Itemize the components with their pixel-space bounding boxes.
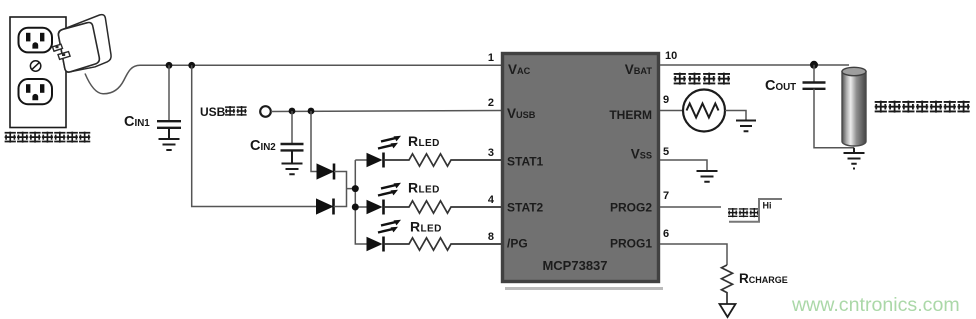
diode D2 (from VAC) xyxy=(317,199,334,215)
wall outlet lower receptacle xyxy=(19,79,53,104)
svg-text:4: 4 xyxy=(488,194,495,206)
LED DS1 (STAT1) xyxy=(367,136,402,168)
capacitor CIN2 xyxy=(281,144,304,150)
label COUT xyxy=(765,78,796,94)
svg-text:RLED: RLED xyxy=(410,219,442,235)
wire thermistor to ground xyxy=(725,111,746,121)
label RLED (bottom) xyxy=(410,219,442,235)
label RLED (middle) xyxy=(408,180,440,196)
svg-text:Hi: Hi xyxy=(763,201,772,211)
wire VAC top rail xyxy=(140,64,501,66)
ground (thermistor) xyxy=(736,121,756,132)
junction node diode output on bus xyxy=(352,185,359,192)
pin number 9 xyxy=(663,94,669,106)
ground (CIN1) xyxy=(159,128,180,150)
label 墙式稳压适配器 (wall regulated adapter) xyxy=(5,132,91,143)
ground (VSS) xyxy=(697,171,718,182)
wire VBAT rail (pin 10) xyxy=(660,64,849,66)
pin label STAT2 xyxy=(507,201,544,215)
wire adapter cord xyxy=(85,65,140,94)
resistor RLED top xyxy=(384,154,502,166)
svg-text:CIN1: CIN1 xyxy=(124,114,150,130)
pin number 7 xyxy=(663,190,669,202)
wall adapter prong lower xyxy=(58,52,70,60)
label 单节锂离子电池 (single-cell li-ion battery) xyxy=(875,101,970,113)
wire CIN2 branch xyxy=(291,111,293,143)
pin label VBAT xyxy=(625,62,653,77)
wire VSS to ground (pin 5) xyxy=(660,160,707,171)
ground (CIN2) xyxy=(282,150,303,174)
wire CIN1 branch xyxy=(168,65,170,120)
diode D1 (from VUSB) xyxy=(317,164,334,180)
label 低电平 (low level) xyxy=(728,208,759,217)
resistor RCHARGE xyxy=(722,265,733,304)
wall outlet center screw xyxy=(30,61,40,71)
wall adapter prong upper xyxy=(53,44,63,51)
svg-text:/PG: /PG xyxy=(507,237,528,251)
pin number 3 xyxy=(488,147,494,159)
wire PROG1 to RCHARGE (pin 6) xyxy=(660,244,727,265)
label RLED (top) xyxy=(408,133,440,149)
svg-text:CIN2: CIN2 xyxy=(250,138,276,154)
svg-text:1: 1 xyxy=(488,52,494,64)
wire VUSB branch down to diode D1 xyxy=(311,111,317,172)
svg-text:PROG2: PROG2 xyxy=(610,201,652,215)
LED DS2 (STAT2) xyxy=(367,183,402,215)
arrow terminal below RCHARGE xyxy=(720,304,736,317)
thermistor RT1 xyxy=(683,90,725,132)
resistor RLED middle xyxy=(384,201,502,213)
svg-text:STAT1: STAT1 xyxy=(507,155,544,169)
pin label THERM xyxy=(609,108,652,122)
pin label VUSB (pin 2 inside) xyxy=(507,106,536,121)
svg-text:3: 3 xyxy=(488,147,494,159)
wire VAC branch down to diode D2 xyxy=(192,65,317,206)
pin number 10 xyxy=(665,50,677,62)
battery BT1 single-cell li-ion xyxy=(842,67,866,146)
wall outlet upper receptacle xyxy=(19,28,53,53)
wire VUSB rail xyxy=(271,111,501,112)
wall outlet plate xyxy=(10,17,66,128)
pin number 5 xyxy=(663,146,669,158)
pin label STAT1 xyxy=(507,155,544,169)
USB connector circle xyxy=(260,106,271,117)
pin number 1 xyxy=(488,52,494,64)
pin number 8 xyxy=(488,231,494,243)
pin label PROG2 xyxy=(610,201,652,215)
svg-text:STAT2: STAT2 xyxy=(507,201,544,215)
junction node CIN2 tap xyxy=(289,108,296,115)
svg-text:www.cntronics.com: www.cntronics.com xyxy=(791,294,960,316)
watermark www.cntronics.com xyxy=(791,294,960,316)
svg-text:MCP73837: MCP73837 xyxy=(542,258,607,273)
IC U1 MCP73837 body xyxy=(503,54,664,291)
wall adapter plug body xyxy=(58,15,111,72)
pin label /PG xyxy=(507,237,528,251)
wire diode OR-output bar xyxy=(334,172,356,207)
svg-text:9: 9 xyxy=(663,94,669,106)
ground (battery) xyxy=(844,148,865,169)
svg-text:THERM: THERM xyxy=(609,108,652,122)
svg-text:PROG1: PROG1 xyxy=(610,237,652,251)
label 热敏电阻 (thermistor) xyxy=(674,73,730,85)
svg-text:RLED: RLED xyxy=(408,133,440,149)
logic level step symbol on PROG2 xyxy=(729,199,782,222)
svg-text:COUT: COUT xyxy=(765,78,796,94)
junction node VAC branch to diode D2 xyxy=(188,62,195,69)
LED DS3 (/PG) xyxy=(367,220,402,252)
pin label VSS xyxy=(631,147,652,162)
svg-text:2: 2 xyxy=(488,97,494,109)
wire COUT to battery negative xyxy=(814,89,854,148)
label USB端口 (USB port) xyxy=(200,105,247,119)
pin label PROG1 xyxy=(610,237,652,251)
svg-text:8: 8 xyxy=(488,231,494,243)
svg-text:USB: USB xyxy=(200,105,226,119)
pin label VAC (pin 1 inside) xyxy=(508,62,531,77)
label CIN2 xyxy=(250,138,276,154)
svg-text:7: 7 xyxy=(663,190,669,202)
wire THERM to thermistor (pin 9) xyxy=(660,110,683,112)
pin number 4 xyxy=(488,194,495,206)
capacitor COUT xyxy=(803,65,826,89)
junction node COUT tap xyxy=(810,61,818,69)
svg-text:RCHARGE: RCHARGE xyxy=(739,271,788,286)
wire PROG2 (pin 7) xyxy=(660,206,721,208)
junction node CIN1 tap xyxy=(166,62,173,69)
label RCHARGE xyxy=(739,271,788,286)
wire LED anode bus xyxy=(355,160,366,244)
junction node middle LED tap xyxy=(352,204,359,211)
svg-text:10: 10 xyxy=(665,50,677,62)
resistor RLED bottom xyxy=(384,238,502,250)
pin number 6 xyxy=(663,228,669,240)
part number MCP73837 xyxy=(542,258,607,273)
svg-text:5: 5 xyxy=(663,146,669,158)
junction node VUSB branch to diode D1 xyxy=(308,108,315,115)
svg-text:6: 6 xyxy=(663,228,669,240)
label CIN1 xyxy=(124,114,150,130)
capacitor CIN1 xyxy=(157,121,181,128)
svg-text:RLED: RLED xyxy=(408,180,440,196)
pin number 2 xyxy=(488,97,494,109)
